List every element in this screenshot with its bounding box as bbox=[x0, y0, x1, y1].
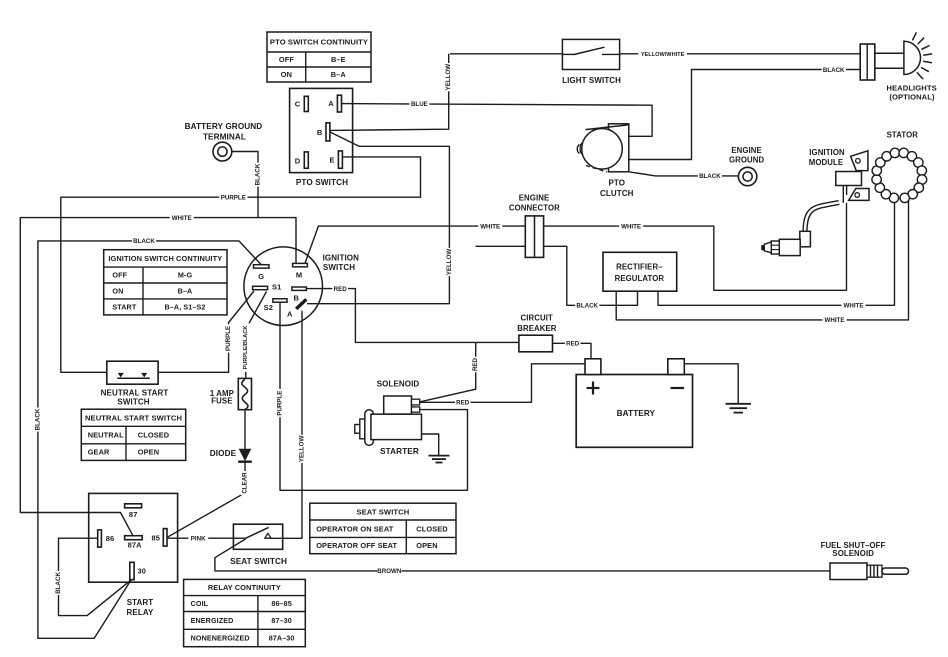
svg-text:ENGINE: ENGINE bbox=[519, 194, 550, 203]
engine ground label bbox=[729, 146, 765, 165]
svg-text:OPEN: OPEN bbox=[138, 448, 159, 457]
svg-text:B–A: B–A bbox=[178, 287, 193, 296]
svg-text:YELLOW: YELLOW bbox=[446, 249, 453, 276]
label YELLOW ignition A down bbox=[298, 435, 306, 463]
fuel shut-off solenoid bbox=[830, 563, 909, 580]
label PURPLE main bbox=[219, 193, 247, 201]
svg-text:NEUTRAL: NEUTRAL bbox=[88, 431, 124, 440]
1 amp fuse F1 bbox=[238, 378, 251, 409]
PTO switch pin D bbox=[295, 152, 309, 168]
light switch label bbox=[562, 76, 621, 85]
svg-text:A: A bbox=[287, 310, 293, 319]
svg-text:(OPTIONAL): (OPTIONAL) bbox=[889, 93, 935, 102]
wire: clear from diode to start relay 85 bbox=[167, 462, 245, 538]
PTO switch pin E bbox=[329, 151, 342, 168]
fuel shut-off solenoid label bbox=[821, 541, 886, 558]
label PURPLE/BLACK bbox=[242, 323, 250, 372]
seat switch lever bbox=[246, 527, 271, 538]
ignition switch pin G bbox=[254, 265, 270, 281]
svg-text:TERMINAL: TERMINAL bbox=[203, 132, 246, 141]
wire: red battery positive to solenoid upper terminal bbox=[420, 364, 586, 403]
svg-text:FUSE: FUSE bbox=[211, 397, 232, 406]
solenoid label bbox=[377, 379, 420, 388]
light switch SW1 bbox=[562, 39, 619, 69]
svg-text:ENGINE: ENGINE bbox=[731, 146, 762, 155]
svg-text:OPERATOR ON SEAT: OPERATOR ON SEAT bbox=[316, 524, 394, 533]
relay continuity table bbox=[184, 579, 306, 646]
neutral start switch label bbox=[101, 388, 169, 406]
wire: starter case to ground bbox=[422, 434, 439, 455]
svg-text:RED: RED bbox=[456, 400, 470, 407]
label BLACK battery ground terminal bbox=[254, 163, 262, 187]
svg-text:OPERATOR OFF SEAT: OPERATOR OFF SEAT bbox=[316, 541, 397, 550]
svg-text:GROUND: GROUND bbox=[729, 155, 765, 164]
svg-text:M-G: M-G bbox=[178, 271, 193, 280]
svg-text:BROWN: BROWN bbox=[377, 568, 402, 575]
wire: red circuit breaker to battery positive bbox=[552, 343, 591, 359]
ignition switch body circle bbox=[244, 247, 323, 326]
wire: white rectifier-regulator to stator right lead bbox=[616, 197, 908, 320]
svg-text:COIL: COIL bbox=[191, 599, 209, 608]
svg-text:BLACK: BLACK bbox=[255, 163, 262, 185]
svg-text:WHITE: WHITE bbox=[844, 303, 864, 310]
start relay pin 85 bbox=[152, 529, 167, 547]
svg-text:MODULE: MODULE bbox=[809, 158, 843, 167]
label YELLOW/WHITE bbox=[638, 50, 687, 58]
svg-text:STATOR: STATOR bbox=[887, 130, 919, 139]
svg-text:START: START bbox=[112, 303, 136, 312]
wire: purple from ignition S1 to neutral start switch bbox=[158, 291, 254, 372]
label BLACK G wire bbox=[132, 237, 156, 245]
svg-text:CONNECTOR: CONNECTOR bbox=[509, 203, 560, 212]
headlight lamp bbox=[875, 32, 932, 79]
label RED ignition B bbox=[332, 284, 348, 292]
start relay pin 86 bbox=[98, 530, 115, 547]
svg-text:M: M bbox=[296, 271, 302, 280]
wire: red from ignition B to circuit breaker bbox=[307, 289, 521, 343]
wire: brown from seat switch to fuel shut-off solenoid bbox=[215, 539, 830, 571]
svg-text:START: START bbox=[127, 598, 154, 607]
svg-text:ON: ON bbox=[112, 287, 123, 296]
svg-text:PURPLE: PURPLE bbox=[221, 194, 246, 201]
svg-text:87: 87 bbox=[129, 510, 138, 519]
rectifier-regulator U1 bbox=[603, 252, 677, 291]
PTO switch label bbox=[296, 178, 348, 187]
wire: white from ignition M through engine connector to ignition module bbox=[305, 203, 847, 290]
svg-text:BATTERY: BATTERY bbox=[617, 409, 656, 418]
svg-text:BLACK: BLACK bbox=[699, 173, 721, 180]
ignition module label bbox=[809, 148, 845, 167]
svg-text:WHITE: WHITE bbox=[825, 317, 845, 324]
label RED vertical bbox=[472, 357, 480, 373]
svg-text:G: G bbox=[258, 272, 264, 281]
svg-text:SOLENOID: SOLENOID bbox=[377, 379, 420, 388]
label YELLOW vertical top bbox=[445, 63, 453, 91]
svg-text:SWITCH: SWITCH bbox=[117, 398, 149, 407]
wire: black from ignition G to start relay 30 bbox=[38, 241, 261, 638]
starter label bbox=[380, 447, 419, 456]
svg-text:S2: S2 bbox=[264, 303, 273, 312]
neutral start switch table bbox=[81, 409, 185, 460]
svg-text:CLOSED: CLOSED bbox=[138, 431, 170, 440]
svg-text:E: E bbox=[329, 156, 334, 165]
wire: purple from PTO switch E to neutral start switch bbox=[61, 157, 421, 372]
spark plug bbox=[761, 239, 800, 255]
svg-text:CLOSED: CLOSED bbox=[416, 524, 448, 533]
wire: yellow/white feed left of light switch bbox=[450, 53, 562, 55]
battery BT1 bbox=[576, 359, 692, 448]
solenoid bbox=[384, 396, 412, 414]
label RED breaker out bbox=[565, 339, 581, 347]
PTO clutch label bbox=[600, 179, 634, 198]
svg-text:NONENERGIZED: NONENERGIZED bbox=[191, 634, 250, 643]
PTO switch pin A bbox=[328, 95, 341, 112]
svg-text:B: B bbox=[317, 128, 323, 137]
engine ground terminal bbox=[738, 167, 756, 185]
svg-text:PURPLE: PURPLE bbox=[277, 391, 284, 416]
svg-text:REGULATOR: REGULATOR bbox=[615, 274, 665, 283]
wire: red junction down to solenoid upper terminal bbox=[420, 342, 476, 402]
fuse label bbox=[210, 389, 234, 406]
svg-text:IGNITION: IGNITION bbox=[323, 254, 359, 263]
svg-text:30: 30 bbox=[138, 566, 147, 575]
ignition switch continuity table bbox=[104, 250, 227, 315]
wire: yellow from ignition A to seat switch bbox=[271, 311, 302, 539]
svg-text:NEUTRAL START SWITCH: NEUTRAL START SWITCH bbox=[85, 413, 182, 422]
svg-text:B–A: B–A bbox=[331, 70, 347, 79]
headlights label bbox=[886, 84, 936, 102]
svg-text:YELLOW: YELLOW bbox=[445, 64, 452, 91]
solenoid terminals bbox=[412, 399, 420, 412]
svg-text:WHITE: WHITE bbox=[172, 215, 192, 222]
svg-text:B–A, S1–S2: B–A, S1–S2 bbox=[165, 303, 206, 312]
label BLACK headlight bbox=[822, 65, 846, 73]
label BLUE bbox=[410, 100, 430, 108]
svg-text:RED: RED bbox=[472, 357, 479, 371]
wire: black battery ground terminal lead bbox=[232, 152, 258, 218]
stator bbox=[872, 148, 927, 202]
label PINK bbox=[188, 534, 208, 542]
wire: purple solenoid lower terminal to ignition S2 bbox=[280, 303, 468, 491]
svg-text:GEAR: GEAR bbox=[88, 448, 110, 457]
svg-text:BLACK: BLACK bbox=[133, 238, 155, 245]
svg-text:BREAKER: BREAKER bbox=[517, 324, 557, 333]
svg-text:BLUE: BLUE bbox=[411, 101, 428, 108]
svg-text:SEAT SWITCH: SEAT SWITCH bbox=[230, 557, 287, 566]
svg-text:OFF: OFF bbox=[279, 55, 294, 64]
label WHITE connector right bbox=[619, 222, 643, 230]
start relay pin 87A bbox=[125, 536, 143, 550]
svg-text:HEADLIGHTS: HEADLIGHTS bbox=[886, 84, 936, 93]
svg-text:B: B bbox=[294, 294, 300, 303]
wire: black PTO clutch to engine ground bbox=[629, 172, 739, 176]
svg-text:STARTER: STARTER bbox=[380, 447, 419, 456]
battery ground terminal label bbox=[185, 122, 263, 141]
ignition switch pin S1 bbox=[253, 282, 282, 291]
svg-text:ON: ON bbox=[281, 70, 292, 79]
spark plug lead bbox=[800, 203, 839, 247]
PTO switch continuity table bbox=[267, 32, 371, 82]
svg-text:RED: RED bbox=[334, 286, 348, 293]
svg-text:85: 85 bbox=[152, 533, 161, 542]
wire: yellow from PTO switch B up to light circuit bbox=[330, 54, 449, 131]
svg-text:PTO: PTO bbox=[608, 179, 625, 188]
label CLEAR bbox=[241, 471, 249, 495]
label BLACK relay 86 bbox=[54, 571, 62, 595]
starter motor bbox=[355, 410, 422, 446]
neutral start switch contacts bbox=[117, 373, 150, 378]
svg-text:SEAT SWITCH: SEAT SWITCH bbox=[356, 507, 409, 516]
diode D1 bbox=[238, 449, 252, 462]
svg-text:S1: S1 bbox=[272, 282, 281, 291]
svg-text:PTO SWITCH CONTINUITY: PTO SWITCH CONTINUITY bbox=[270, 38, 368, 47]
wire: black engine connector branch to rectifier-regulator bbox=[476, 246, 638, 305]
svg-text:87A–30: 87A–30 bbox=[269, 634, 295, 643]
svg-text:87–30: 87–30 bbox=[271, 616, 292, 625]
svg-text:SWITCH: SWITCH bbox=[323, 263, 355, 272]
svg-text:PURPLE/BLACK: PURPLE/BLACK bbox=[243, 326, 249, 370]
svg-text:WHITE: WHITE bbox=[480, 223, 500, 230]
ignition switch label bbox=[323, 254, 359, 273]
label RED solenoid bbox=[455, 398, 471, 406]
wire: white rectifier-regulator to stator left lead bbox=[658, 197, 895, 305]
circuit breaker CB1 bbox=[519, 335, 553, 352]
svg-text:BLACK: BLACK bbox=[576, 303, 598, 310]
svg-text:DIODE: DIODE bbox=[210, 449, 237, 458]
engine connector label bbox=[509, 194, 560, 213]
svg-text:CIRCUIT: CIRCUIT bbox=[521, 314, 553, 323]
start relay pin 87 bbox=[125, 504, 142, 519]
ignition switch pin S2 bbox=[264, 299, 287, 312]
svg-text:D: D bbox=[295, 156, 301, 165]
svg-text:BLACK: BLACK bbox=[823, 67, 845, 74]
svg-text:PURPLE: PURPLE bbox=[225, 326, 232, 351]
wire: yellow/white light switch to headlight connector bbox=[620, 53, 861, 55]
start relay label bbox=[127, 598, 154, 617]
label PURPLE S2 bbox=[276, 389, 284, 417]
wire: black headlight return to PTO clutch bbox=[629, 70, 861, 160]
engine connector bbox=[525, 216, 543, 258]
svg-text:86–85: 86–85 bbox=[271, 599, 292, 608]
ignition switch pin M bbox=[293, 263, 308, 279]
ignition module bbox=[836, 151, 869, 203]
svg-text:CLUTCH: CLUTCH bbox=[600, 189, 634, 198]
circuit breaker label bbox=[517, 314, 557, 333]
wire: fuse to diode bbox=[244, 410, 246, 449]
svg-text:87A: 87A bbox=[128, 540, 143, 549]
ignition switch pin A bbox=[287, 299, 306, 318]
svg-text:OFF: OFF bbox=[112, 271, 127, 280]
label BLACK far left bbox=[34, 408, 42, 432]
seat switch label bbox=[230, 557, 287, 566]
label WHITE connector left bbox=[478, 222, 502, 230]
PTO switch body bbox=[290, 88, 353, 172]
start relay pin 30 bbox=[130, 562, 146, 579]
wire: pink start relay 85 to seat switch bbox=[167, 537, 246, 539]
label BLACK rectifier bbox=[575, 301, 599, 309]
svg-text:RED: RED bbox=[566, 341, 580, 348]
svg-text:RECTIFIER–: RECTIFIER– bbox=[616, 262, 663, 271]
svg-text:ENERGIZED: ENERGIZED bbox=[191, 616, 234, 625]
PTO clutch bbox=[577, 124, 629, 172]
wire: battery negative to ground bbox=[684, 364, 738, 403]
wire: black start relay 86 loop to relay 30 bbox=[59, 538, 132, 615]
diode label bbox=[210, 449, 237, 458]
stator label bbox=[887, 130, 919, 139]
headlight connector bbox=[860, 44, 875, 80]
label WHITE stator left bbox=[842, 301, 866, 309]
svg-text:B–E: B–E bbox=[331, 55, 346, 64]
PTO switch pin C bbox=[295, 96, 309, 111]
svg-text:IGNITION: IGNITION bbox=[809, 148, 845, 157]
wire: yellow from PTO switch B to ignition A bbox=[307, 132, 449, 304]
svg-text:WHITE: WHITE bbox=[621, 223, 641, 230]
svg-text:PINK: PINK bbox=[191, 535, 206, 542]
svg-text:NEUTRAL START: NEUTRAL START bbox=[101, 388, 169, 397]
wire: white from ignition M to start relay 87A bbox=[20, 218, 296, 536]
svg-text:BATTERY GROUND: BATTERY GROUND bbox=[185, 122, 263, 131]
svg-text:IGNITION SWITCH CONTINUITY: IGNITION SWITCH CONTINUITY bbox=[108, 254, 222, 263]
svg-text:BLACK: BLACK bbox=[34, 408, 41, 430]
svg-text:PTO SWITCH: PTO SWITCH bbox=[296, 178, 348, 187]
start relay body bbox=[89, 493, 178, 582]
wire: blue from PTO switch A to PTO clutch bbox=[342, 104, 653, 137]
svg-text:A: A bbox=[328, 99, 334, 108]
svg-text:YELLOW/WHITE: YELLOW/WHITE bbox=[641, 52, 685, 58]
svg-text:YELLOW: YELLOW bbox=[299, 436, 306, 463]
battery ground symbol bbox=[726, 404, 752, 413]
label BROWN bbox=[377, 567, 402, 575]
seat switch body bbox=[233, 524, 282, 549]
svg-text:OPEN: OPEN bbox=[416, 541, 437, 550]
svg-text:CLEAR: CLEAR bbox=[242, 472, 249, 494]
label PURPLE S1 bbox=[224, 324, 232, 352]
svg-text:RELAY CONTINUITY: RELAY CONTINUITY bbox=[208, 583, 281, 592]
svg-text:86: 86 bbox=[106, 534, 115, 543]
PTO switch pin B bbox=[317, 123, 330, 141]
svg-text:C: C bbox=[295, 100, 301, 109]
neutral start switch body bbox=[107, 361, 158, 384]
svg-text:LIGHT SWITCH: LIGHT SWITCH bbox=[562, 76, 621, 85]
label WHITE stator right bbox=[823, 316, 847, 324]
starter ground symbol bbox=[429, 456, 450, 463]
ignition switch pin B bbox=[292, 287, 307, 303]
svg-text:SOLENOID: SOLENOID bbox=[832, 549, 874, 558]
seat switch table bbox=[310, 503, 456, 554]
label BLACK clutch ground bbox=[698, 171, 722, 179]
battery ground terminal bbox=[213, 142, 232, 161]
wire: purple/black from ignition S1 to 1 amp fuse bbox=[246, 292, 267, 379]
label YELLOW vertical mid bbox=[445, 248, 453, 276]
label WHITE left bbox=[170, 213, 194, 221]
svg-text:RELAY: RELAY bbox=[127, 608, 154, 617]
svg-text:BLACK: BLACK bbox=[55, 572, 62, 594]
